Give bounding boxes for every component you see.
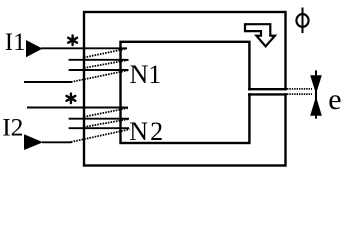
svg-text:I1: I1	[5, 29, 26, 56]
svg-text:N2: N2	[129, 117, 165, 146]
svg-text:N1: N1	[130, 60, 162, 89]
svg-text:e: e	[328, 83, 341, 116]
svg-text:I2: I2	[2, 113, 23, 142]
